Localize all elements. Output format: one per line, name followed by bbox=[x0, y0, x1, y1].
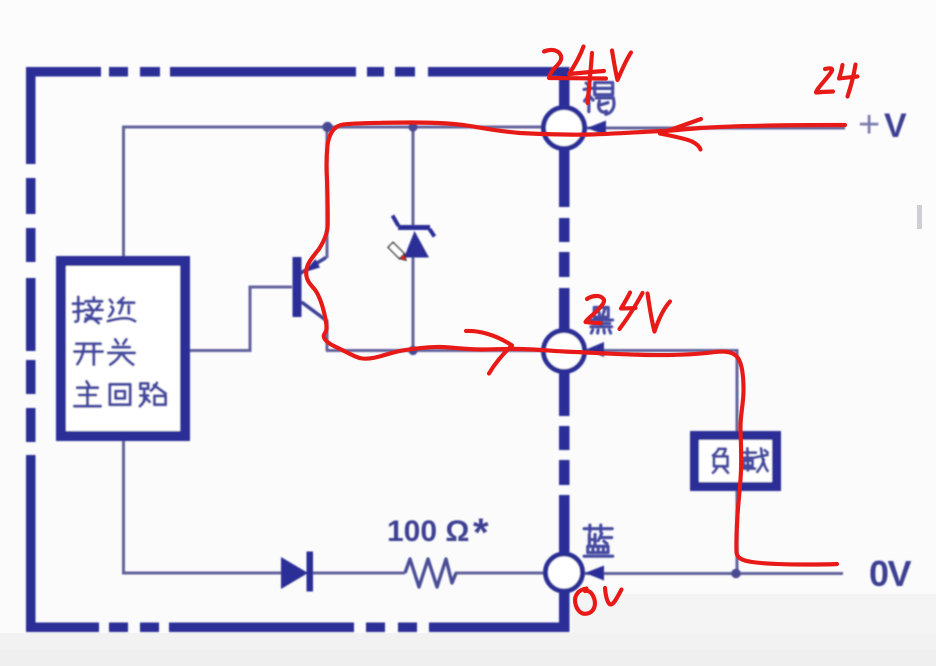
svg-text:0V: 0V bbox=[869, 553, 912, 594]
svg-text:+: + bbox=[858, 104, 880, 146]
svg-text:100 Ω: 100 Ω bbox=[387, 515, 469, 548]
svg-text:V: V bbox=[884, 107, 907, 145]
svg-text:*: * bbox=[473, 511, 489, 555]
